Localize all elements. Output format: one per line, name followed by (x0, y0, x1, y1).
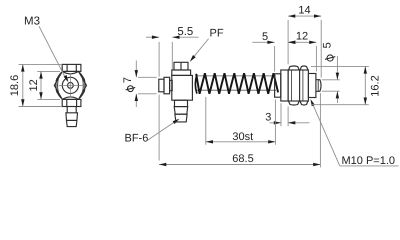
svg-text:68.5: 68.5 (232, 153, 253, 165)
svg-text:18.6: 18.6 (9, 75, 21, 96)
svg-text:PF: PF (210, 28, 224, 40)
svg-text:12: 12 (296, 30, 308, 42)
svg-text:M3: M3 (24, 16, 40, 28)
svg-text:5: 5 (262, 31, 268, 43)
svg-text:3: 3 (265, 111, 271, 123)
svg-text:30st: 30st (232, 131, 253, 143)
svg-text:M10 P=1.0: M10 P=1.0 (342, 155, 396, 167)
svg-text:5: 5 (322, 42, 334, 48)
svg-text:16.2: 16.2 (369, 75, 381, 96)
svg-text:12: 12 (28, 79, 40, 91)
svg-text:5.5: 5.5 (177, 26, 193, 38)
svg-text:14: 14 (298, 5, 310, 17)
svg-text:7: 7 (122, 77, 134, 83)
svg-text:BF-6: BF-6 (125, 133, 149, 145)
